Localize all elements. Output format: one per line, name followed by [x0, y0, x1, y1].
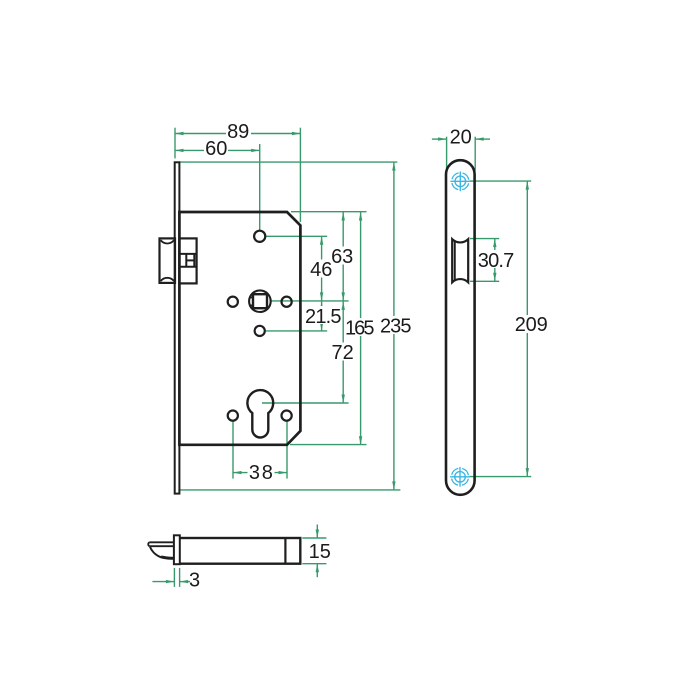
- dimension 30.7 label: [478, 250, 517, 268]
- extension line top hole: [266, 235, 327, 237]
- dimension 38 arrows: [233, 471, 242, 474]
- bottom screw hole symbol: [450, 467, 470, 487]
- forend plate side view: [174, 535, 180, 564]
- right hole: [282, 297, 292, 307]
- dimension 15 arrows: [316, 530, 319, 539]
- dimension 209 label: [514, 315, 549, 333]
- svg-text:46: 46: [310, 259, 332, 281]
- dimension 165 label: [345, 318, 376, 336]
- extension line side bottom: [302, 563, 326, 565]
- dimension 63 / 72 line: [342, 212, 344, 403]
- dimension 235 line: [393, 162, 395, 490]
- case body side view: [177, 538, 300, 564]
- dimension 165 arrows: [359, 212, 362, 221]
- extension line right cyl-hole: [286, 422, 288, 479]
- latch bolt bevel edge in cutout: [454, 241, 456, 281]
- extension line plate front: [173, 568, 175, 587]
- svg-text:63: 63: [331, 246, 353, 268]
- svg-text:21.5: 21.5: [305, 306, 342, 328]
- dimension 30.7 line: [494, 239, 496, 282]
- dimension 209 arrows: [526, 181, 529, 190]
- latch bolt tip rounded cap: [148, 542, 150, 546]
- top screw hole symbol: [450, 171, 470, 191]
- extension line cylinder center: [262, 402, 349, 404]
- latch bolt inner bevel curve: [161, 556, 174, 557]
- dimension 60 label: [204, 140, 228, 158]
- dimension 38 line: [233, 472, 287, 474]
- svg-text:38: 38: [249, 462, 273, 484]
- svg-text:30.7: 30.7: [478, 250, 515, 272]
- spindle hub circle: [249, 290, 271, 312]
- latch bolt body: [179, 238, 196, 283]
- extension line right (case back): [299, 128, 301, 222]
- latch bolt tip inner edge: [150, 545, 175, 547]
- extension line faceplate right: [474, 137, 476, 171]
- lock case outline: [179, 212, 300, 445]
- left hole: [228, 297, 238, 307]
- extension line left (forend face): [174, 128, 176, 159]
- dimension 21.5 label: [305, 306, 343, 324]
- dimension 20 right line: [475, 138, 490, 140]
- latch guide lower line: [179, 266, 196, 268]
- dimension 60 arrows: [175, 149, 184, 152]
- dimension 46 arrows: [320, 236, 323, 245]
- dimension 15 lower line: [316, 564, 318, 578]
- dimension 30.7 arrows: [493, 239, 496, 248]
- dimension 46 label: [310, 260, 334, 278]
- dimension 38 label: [248, 463, 275, 481]
- latch guide left bar: [185, 254, 187, 267]
- dimension 72 arrows: [342, 301, 345, 310]
- extension line bottom screw: [470, 476, 532, 478]
- extension line forend bottom: [179, 489, 400, 491]
- svg-text:20: 20: [450, 127, 472, 149]
- extension line hub center: [272, 300, 349, 302]
- svg-text:209: 209: [515, 314, 548, 336]
- lower hole: [255, 326, 265, 336]
- dimension 63 label: [331, 247, 355, 265]
- faceplate outline: [446, 160, 475, 495]
- case end divider: [284, 538, 286, 564]
- svg-text:15: 15: [309, 541, 331, 563]
- extension line cutout top: [470, 238, 499, 240]
- dimension 46 / 21.5 line: [321, 236, 323, 331]
- latch bolt tip top edge: [150, 541, 175, 543]
- faceplate latch cutout (spool shape): [452, 239, 468, 282]
- top fixing hole: [254, 231, 265, 242]
- extension line top screw: [470, 180, 532, 182]
- latch bolt head bevel arcs: [161, 240, 174, 281]
- svg-text:60: 60: [205, 138, 227, 160]
- latch guide right bar: [193, 254, 195, 267]
- latch bolt head: [160, 238, 176, 283]
- cylinder fixing hole left: [228, 411, 238, 421]
- dimension 235 arrows: [392, 162, 395, 171]
- dimension 209 line: [526, 181, 528, 477]
- dimension 63 arrows: [342, 212, 345, 221]
- forend plate (edge view): [175, 162, 180, 493]
- dimension 89 arrows: [175, 132, 184, 135]
- dimension 3 left line: [152, 581, 174, 583]
- svg-text:72: 72: [331, 342, 353, 364]
- dimension 15 upper line: [316, 525, 318, 539]
- extension line cutout bottom: [470, 280, 499, 282]
- svg-text:165: 165: [345, 318, 375, 340]
- extension line faceplate left: [446, 137, 448, 171]
- dimension 60 line: [175, 149, 260, 151]
- dimension 89 line: [175, 133, 300, 135]
- extension line spindle axis: [259, 144, 261, 231]
- dimension 3 right line: [180, 581, 190, 583]
- dimension 72 label: [331, 343, 355, 361]
- svg-text:3: 3: [189, 570, 200, 592]
- dimension 3 arrows: [166, 580, 175, 583]
- extension line forend top: [179, 161, 397, 163]
- dimension 20 arrows: [438, 137, 447, 140]
- extension line left cyl-hole: [232, 422, 234, 479]
- dimension 20 left line: [432, 138, 447, 140]
- hub tick lower: [249, 304, 253, 306]
- latch bolt outer bevel curve: [150, 547, 174, 559]
- euro cylinder keyhole: [247, 390, 273, 437]
- latch guide crossbar: [186, 259, 194, 261]
- dimension 89 label: [226, 123, 251, 141]
- latch guide upper line: [179, 253, 196, 255]
- extension line case bottom: [290, 444, 367, 446]
- hub tick upper: [249, 297, 253, 299]
- extension line side top: [302, 537, 326, 539]
- svg-text:235: 235: [380, 316, 412, 338]
- dimension 21.5 arrows: [320, 301, 323, 310]
- svg-text:89: 89: [227, 121, 249, 143]
- cylinder fixing hole right: [282, 411, 292, 421]
- dimension 165 line: [360, 212, 362, 445]
- extension line plate back: [179, 568, 181, 587]
- dimension 235 label: [379, 316, 412, 334]
- spindle square hole: [253, 294, 267, 308]
- extension line case top: [291, 211, 367, 213]
- extension line lower hole: [266, 330, 327, 332]
